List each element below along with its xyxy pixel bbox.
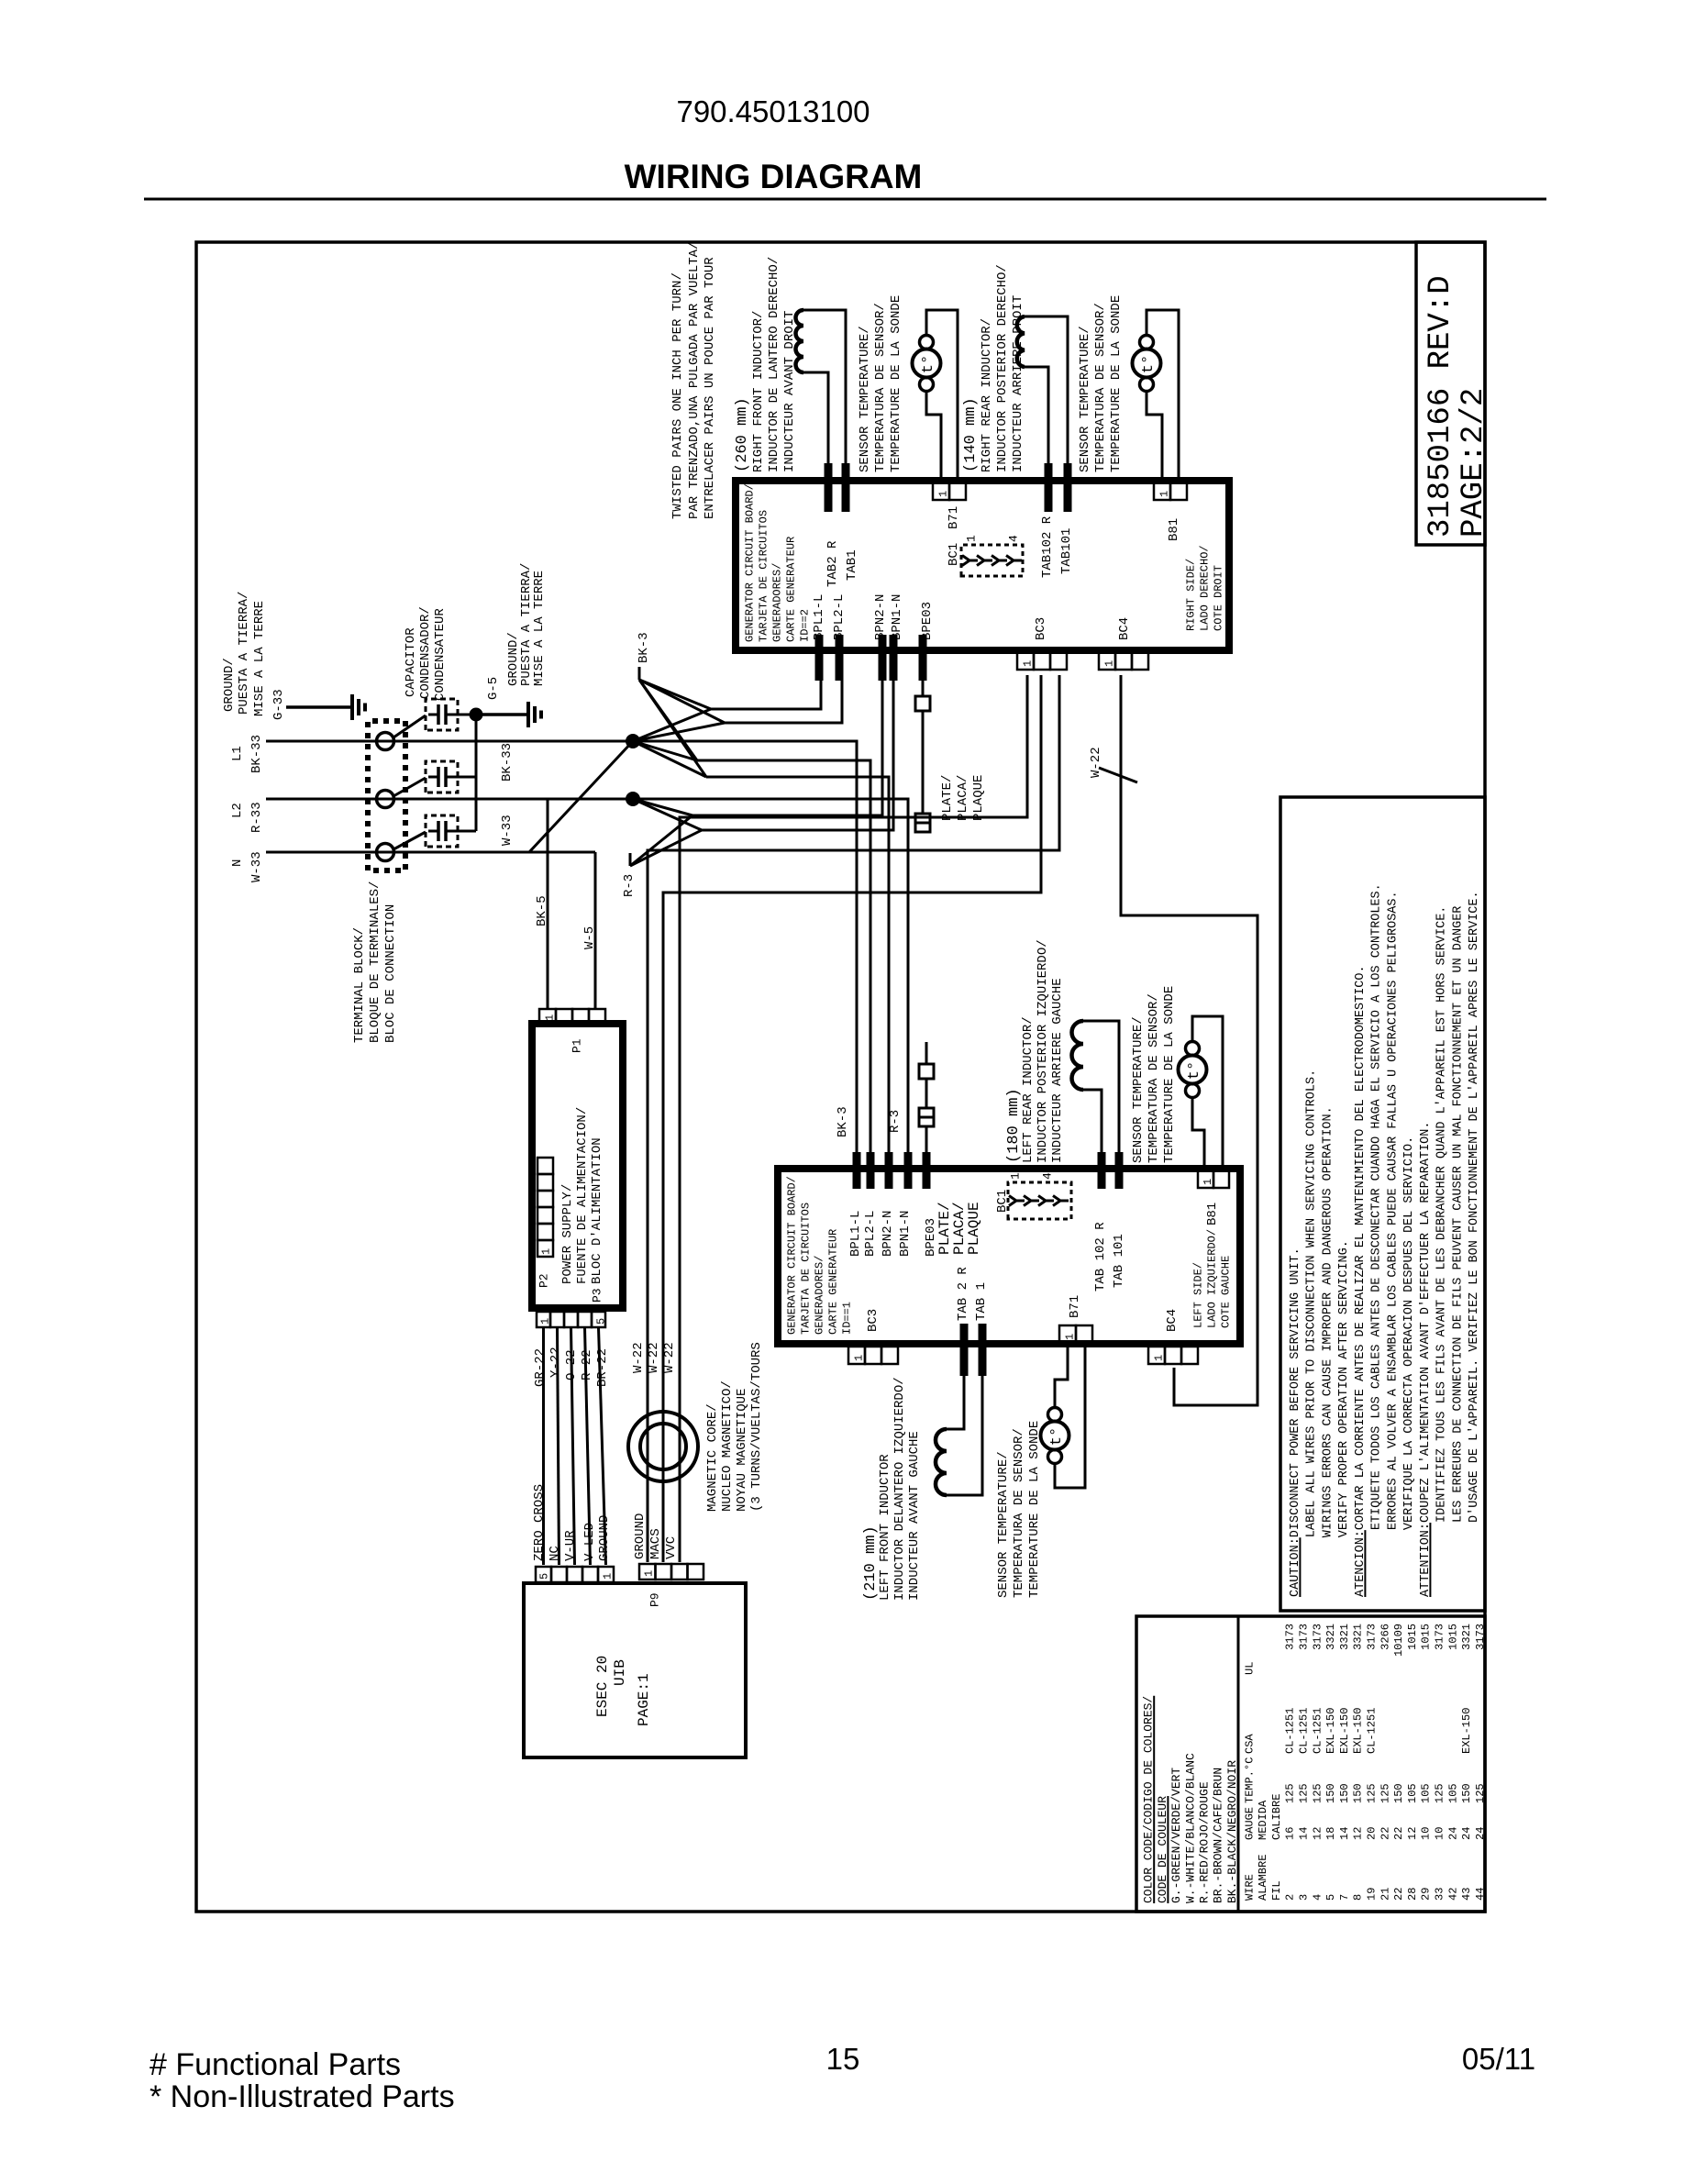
svg-text:FUENTE DE ALIMENTACION/: FUENTE DE ALIMENTACION/	[575, 1107, 590, 1284]
svg-text:G-33: G-33	[271, 689, 286, 720]
stub TAB102 R right	[1045, 463, 1053, 512]
svg-text:TARJETA DE CIRCUITOS: TARJETA DE CIRCUITOS	[799, 1203, 812, 1335]
svg-text:P3: P3	[591, 1288, 604, 1303]
svg-text:NUCLEO MAGNETICO/: NUCLEO MAGNETICO/	[720, 1380, 735, 1512]
wire sensor1 top to B71	[926, 310, 958, 481]
svg-text:1015: 1015	[1406, 1624, 1419, 1650]
wire coil4 to TAB 101	[1083, 1021, 1119, 1152]
svg-text:WIRING DIAGRAM: WIRING DIAGRAM	[625, 158, 923, 195]
svg-text:W-22: W-22	[1089, 747, 1103, 778]
svg-text:NC: NC	[548, 1546, 562, 1561]
svg-text:TAB1: TAB1	[845, 549, 859, 581]
capacitor C3	[426, 815, 458, 847]
svg-text:21: 21	[1379, 1888, 1391, 1901]
tick R-3	[629, 853, 632, 866]
svg-text:1: 1	[1158, 491, 1170, 497]
svg-text:TEMPERATURA DE SENSOR/: TEMPERATURA DE SENSOR/	[1093, 303, 1108, 472]
svg-text:B81: B81	[1167, 518, 1181, 541]
svg-text:1: 1	[543, 1014, 556, 1021]
terminal circle L1	[377, 733, 394, 750]
svg-text:1: 1	[1021, 660, 1034, 667]
svg-text:R-3: R-3	[622, 874, 637, 897]
svg-text:COTE GAUCHE: COTE GAUCHE	[1219, 1256, 1232, 1328]
svg-text:MACS: MACS	[648, 1528, 663, 1559]
wire R-3 node B to left BPN1-N	[633, 799, 908, 1152]
svg-text:BPL1-L: BPL1-L	[812, 594, 826, 640]
svg-text:1: 1	[1152, 1355, 1165, 1361]
svg-text:ERRORES AL VOLVER A ENSAMBLAR: ERRORES AL VOLVER A ENSAMBLAR LOS CABLES…	[1386, 891, 1400, 1530]
svg-text:INDUCTOR DELANTERO IZQUIERDO/: INDUCTOR DELANTERO IZQUIERDO/	[892, 1377, 907, 1601]
svg-text:3266: 3266	[1379, 1624, 1391, 1650]
svg-text:LEFT FRONT INDUCTOR: LEFT FRONT INDUCTOR	[878, 1454, 892, 1601]
svg-text:PAR TRENZADO,UNA PULGADA PAR V: PAR TRENZADO,UNA PULGADA PAR VUELTA/	[687, 242, 702, 519]
wire sensor4 top to B81 left	[1192, 1016, 1223, 1169]
svg-text:TAB 101: TAB 101	[1112, 1234, 1126, 1288]
svg-text:10109: 10109	[1392, 1624, 1405, 1657]
stub BPL2-L right	[836, 635, 844, 681]
svg-text:2: 2	[1284, 1894, 1297, 1901]
svg-text:24: 24	[1460, 1827, 1473, 1840]
connector B81 left	[1198, 1170, 1213, 1188]
svg-text:MISE A LA TERRE: MISE A LA TERRE	[252, 601, 267, 716]
svg-text:42: 42	[1446, 1888, 1459, 1901]
wire BC3R-2 to P9 MACS	[663, 675, 1041, 1562]
svg-text:28: 28	[1406, 1888, 1419, 1901]
svg-text:NOYAU MAGNETIQUE: NOYAU MAGNETIQUE	[735, 1389, 749, 1512]
svg-text:24: 24	[1446, 1827, 1459, 1840]
svg-text:UIB: UIB	[612, 1659, 628, 1686]
svg-text:P9: P9	[648, 1592, 662, 1607]
svg-text:PAGE:1: PAGE:1	[636, 1673, 652, 1726]
svg-text:VERIFY PROPER OPERATION AFTER: VERIFY PROPER OPERATION AFTER SERVICING.	[1337, 1240, 1351, 1537]
ESEC 20 UIB box	[524, 1583, 746, 1757]
svg-text:ALAMBRE: ALAMBRE	[1257, 1855, 1269, 1901]
svg-text:22: 22	[1392, 1827, 1405, 1840]
inductor left rear (180 mm)	[1072, 1021, 1084, 1090]
svg-text:3321: 3321	[1352, 1624, 1365, 1650]
svg-text:150: 150	[1338, 1783, 1351, 1803]
wire BC3R-3 to P9 GROUND	[648, 675, 1059, 1562]
svg-text:TARJETA DE CIRCUITOS: TARJETA DE CIRCUITOS	[757, 510, 770, 642]
svg-text:BK-33: BK-33	[249, 735, 264, 773]
svg-text:LEFT SIDE/: LEFT SIDE/	[1191, 1262, 1204, 1328]
svg-text:TAB 102 R: TAB 102 R	[1093, 1222, 1108, 1292]
svg-text:W-33: W-33	[500, 815, 515, 846]
svg-text:TEMPERATURA DE SENSOR/: TEMPERATURA DE SENSOR/	[1012, 1428, 1026, 1598]
svg-text:t°: t°	[1140, 355, 1158, 373]
svg-text:1: 1	[1202, 1179, 1214, 1185]
connector BC4 left	[1148, 1347, 1165, 1364]
svg-text:ZERO CROSS: ZERO CROSS	[532, 1484, 547, 1561]
capacitor C1	[426, 699, 458, 730]
svg-text:19: 19	[1366, 1888, 1379, 1901]
svg-text:125: 125	[1379, 1783, 1391, 1803]
junction node A (L1)	[626, 735, 640, 748]
svg-text:LADO IZQUIERDO/: LADO IZQUIERDO/	[1205, 1229, 1218, 1328]
svg-text:TEMPERATURA DE SENSOR/: TEMPERATURA DE SENSOR/	[873, 303, 888, 472]
svg-text:CONDENSADOR/: CONDENSADOR/	[418, 606, 433, 699]
wire sensor2 top to B81	[1147, 310, 1179, 481]
svg-text:20: 20	[1366, 1827, 1379, 1840]
svg-text:125: 125	[1311, 1783, 1324, 1803]
svg-text:12: 12	[1311, 1827, 1324, 1840]
wire W-5	[594, 852, 597, 1009]
svg-text:GR-22: GR-22	[533, 1348, 548, 1387]
wire coil3 to TAB 2 R	[947, 1376, 964, 1429]
svg-text:1015: 1015	[1420, 1624, 1433, 1650]
svg-text:GENERATOR CIRCUIT BOARD/: GENERATOR CIRCUIT BOARD/	[743, 483, 756, 642]
stub TAB101 right	[1064, 463, 1072, 512]
svg-text:7: 7	[1338, 1894, 1351, 1901]
capacitor C2	[426, 761, 458, 793]
svg-text:3321: 3321	[1460, 1624, 1473, 1650]
svg-text:1: 1	[539, 1248, 552, 1255]
svg-text:105: 105	[1446, 1783, 1459, 1803]
wire L2 R-33	[266, 798, 633, 801]
wire coil4 to TAB 102 R	[1083, 1090, 1102, 1152]
svg-text:ID==2: ID==2	[798, 609, 811, 642]
svg-text:PAGE:2/2: PAGE:2/2	[1457, 388, 1491, 538]
svg-text:3173: 3173	[1366, 1624, 1379, 1650]
svg-text:3173: 3173	[1474, 1624, 1487, 1650]
power supply box	[532, 1024, 623, 1308]
svg-text:1: 1	[936, 491, 949, 497]
wire L2 to C2	[393, 778, 426, 796]
svg-text:VVC: VVC	[664, 1536, 679, 1559]
svg-text:O-22: O-22	[564, 1349, 579, 1380]
svg-text:BPN2-N: BPN2-N	[873, 594, 888, 640]
svg-text:BC4: BC4	[1165, 1309, 1180, 1332]
svg-text:TAB 2 R: TAB 2 R	[956, 1267, 970, 1321]
svg-text:22: 22	[1392, 1888, 1405, 1901]
svg-text:BC1: BC1	[995, 1190, 1010, 1213]
svg-text:INDUCTEUR AVANT DROIT: INDUCTEUR AVANT DROIT	[782, 311, 797, 472]
svg-text:TERMINAL BLOCK/: TERMINAL BLOCK/	[352, 927, 367, 1043]
terminal circle L2	[377, 791, 394, 808]
wire coil2 to TAB101	[1025, 316, 1068, 463]
drawing frame border	[196, 242, 1485, 1912]
svg-text:t°: t°	[1048, 1427, 1066, 1446]
twisted pair fan diagonals	[639, 680, 711, 709]
connector P3	[537, 1312, 550, 1327]
svg-text:1: 1	[965, 535, 979, 542]
svg-text:EXL-150: EXL-150	[1352, 1708, 1365, 1754]
svg-text:R-33: R-33	[249, 802, 264, 833]
svg-text:TAB102 R: TAB102 R	[1040, 516, 1055, 578]
inductor right front (260 mm)	[796, 310, 804, 372]
sensor temperature right rear	[1133, 349, 1161, 378]
sensor temperature right front	[913, 349, 941, 378]
svg-text:150: 150	[1460, 1783, 1473, 1803]
stub TAB 102 R left	[1098, 1152, 1106, 1189]
svg-text:GROUND: GROUND	[597, 1515, 612, 1561]
svg-text:WIRINGS ERRORS CAN CAUSE IMPRO: WIRINGS ERRORS CAN CAUSE IMPROPER AND DA…	[1321, 1106, 1335, 1537]
svg-text:INDUCTEUR ARRIERE GAUCHE: INDUCTEUR ARRIERE GAUCHE	[1050, 978, 1065, 1163]
stub BPL1-L left	[853, 1152, 861, 1189]
svg-text:G.-GREEN/VERDE/VERT: G.-GREEN/VERDE/VERT	[1169, 1768, 1183, 1903]
svg-text:150: 150	[1392, 1783, 1405, 1803]
svg-text:5: 5	[1324, 1894, 1337, 1901]
svg-text:BPN1-N: BPN1-N	[890, 594, 904, 640]
svg-text:CARTE GENERATEUR: CARTE GENERATEUR	[826, 1229, 839, 1335]
wire coil1 to TAB1	[803, 310, 846, 463]
svg-text:BC1: BC1	[947, 543, 961, 566]
svg-text:MEDIDA: MEDIDA	[1257, 1800, 1269, 1840]
svg-text:G-5: G-5	[486, 677, 501, 700]
svg-text:3321: 3321	[1324, 1624, 1337, 1650]
svg-text:3: 3	[1298, 1894, 1311, 1901]
svg-text:W-22: W-22	[647, 1342, 661, 1373]
svg-text:CARTE GENERATEUR: CARTE GENERATEUR	[784, 537, 797, 642]
svg-text:POWER SUPPLY/: POWER SUPPLY/	[560, 1184, 575, 1284]
svg-text:1015: 1015	[1446, 1624, 1459, 1650]
stub TAB 101 left	[1115, 1152, 1124, 1189]
svg-text:43: 43	[1460, 1888, 1473, 1901]
svg-text:BPE03: BPE03	[920, 602, 935, 640]
svg-text:10: 10	[1434, 1827, 1446, 1840]
svg-text:# Functional Parts: # Functional Parts	[150, 2047, 401, 2082]
svg-text:INDUCTOR POSTERIOR IZQUIERDO/: INDUCTOR POSTERIOR IZQUIERDO/	[1036, 939, 1050, 1163]
svg-text:12: 12	[1352, 1827, 1365, 1840]
connector BC3 left	[848, 1347, 865, 1364]
generator circuit board right ID==2	[736, 481, 1229, 650]
plate left (BPE03)	[925, 1126, 928, 1152]
svg-text:10: 10	[1420, 1827, 1433, 1840]
svg-text:105: 105	[1420, 1783, 1433, 1803]
stub BPE03 left	[923, 1152, 931, 1189]
svg-text:PLACA/: PLACA/	[956, 775, 970, 821]
svg-text:W.-WHITE/BLANCO/BLANC: W.-WHITE/BLANCO/BLANC	[1183, 1753, 1197, 1903]
svg-text:(3 TURNS/VUELTAS/TOURS: (3 TURNS/VUELTAS/TOURS	[749, 1342, 764, 1512]
svg-text:1: 1	[1102, 660, 1115, 667]
svg-text:BC3: BC3	[1034, 617, 1048, 640]
svg-text:BR.-BROWN/CAFE/BRUN: BR.-BROWN/CAFE/BRUN	[1212, 1768, 1225, 1903]
svg-text:22: 22	[1379, 1827, 1391, 1840]
svg-text:W-22: W-22	[662, 1342, 677, 1373]
connector BC1 right (dashed)	[961, 545, 1023, 576]
svg-text:1: 1	[642, 1570, 655, 1577]
svg-text:05/11: 05/11	[1462, 2042, 1535, 2076]
svg-text:GENERADORES/: GENERADORES/	[770, 563, 783, 642]
wire sensor3 top to B71 left	[1055, 1343, 1068, 1407]
svg-text:TEMPERATURE DE LA SONDE: TEMPERATURE DE LA SONDE	[1109, 295, 1124, 472]
svg-text:18: 18	[1324, 1827, 1337, 1840]
wire BPL1-L right	[711, 681, 821, 709]
svg-text:ATENCION:CORTAR LA CORRIENTE A: ATENCION:CORTAR LA CORRIENTE ANTES DE RE…	[1354, 965, 1368, 1597]
svg-text:WIRE: WIRE	[1243, 1874, 1256, 1901]
stub BPN1-N left	[904, 1152, 913, 1189]
title block box	[1416, 242, 1485, 545]
wire sensor2 bottom to B81	[1147, 392, 1162, 481]
svg-text:3173: 3173	[1284, 1624, 1297, 1650]
svg-text:D'USAGE DE L'APPAREIL. VERIFIE: D'USAGE DE L'APPAREIL. VERIFIEZ LE BON F…	[1468, 891, 1481, 1523]
svg-text:GENERATOR CIRCUIT BOARD/: GENERATOR CIRCUIT BOARD/	[785, 1176, 798, 1335]
svg-text:B81: B81	[1205, 1203, 1220, 1225]
svg-text:TEMPERATURE DE LA SONDE: TEMPERATURE DE LA SONDE	[1162, 986, 1177, 1163]
svg-text:V-UR: V-UR	[563, 1530, 578, 1561]
wire to left BPL2-L	[697, 760, 870, 1152]
svg-text:P2: P2	[537, 1273, 551, 1288]
connector B71 right	[933, 482, 949, 500]
stub BPN2-N left	[885, 1152, 893, 1189]
svg-text:LEFT REAR INDUCTOR/: LEFT REAR INDUCTOR/	[1021, 1016, 1036, 1163]
svg-text:ENTRELACER PAIRS UN POUCE PAR: ENTRELACER PAIRS UN POUCE PAR TOUR	[703, 257, 717, 519]
connector P2	[537, 1158, 553, 1174]
junction node B (L2)	[626, 793, 640, 806]
svg-text:125: 125	[1474, 1783, 1487, 1803]
inductor right rear (140 mm)	[1017, 316, 1025, 367]
svg-text:EXL-150: EXL-150	[1324, 1708, 1337, 1754]
svg-text:BPN1-N: BPN1-N	[898, 1211, 913, 1257]
svg-text:GENERADORES/: GENERADORES/	[813, 1256, 825, 1335]
stub TAB2 R right	[825, 463, 833, 512]
svg-text:LABEL ALL WIRES PRIOR TO DISCO: LABEL ALL WIRES PRIOR TO DISCONNECTION W…	[1305, 1070, 1319, 1537]
svg-text:SENSOR TEMPERATURE/: SENSOR TEMPERATURE/	[858, 326, 872, 472]
svg-text:BLOQUE DE TERMINALES/: BLOQUE DE TERMINALES/	[368, 881, 382, 1043]
ground symbol G-33	[286, 705, 352, 709]
svg-text:PLAQUE: PLAQUE	[971, 775, 986, 821]
svg-text:TWISTED PAIRS ONE INCH PER TUR: TWISTED PAIRS ONE INCH PER TURN/	[670, 272, 685, 519]
svg-text:BLOC DE CONNECTION: BLOC DE CONNECTION	[383, 904, 398, 1043]
svg-text:1: 1	[601, 1573, 614, 1580]
wire sensor4 bottom to B81 left	[1192, 1099, 1204, 1169]
wire BC3R-1 to P9 VVC	[680, 675, 1027, 1562]
svg-text:EXL-150: EXL-150	[1460, 1708, 1473, 1754]
svg-text:GROUND: GROUND	[633, 1513, 648, 1559]
svg-text:3173: 3173	[1434, 1624, 1446, 1650]
svg-text:INDUCTEUR AVANT GAUCHE: INDUCTEUR AVANT GAUCHE	[907, 1431, 922, 1601]
svg-text:PLAQUE: PLAQUE	[966, 1202, 982, 1255]
connector P4	[536, 1567, 551, 1582]
svg-text:W-33: W-33	[249, 851, 264, 882]
svg-text:SENSOR TEMPERATURE/: SENSOR TEMPERATURE/	[1078, 326, 1092, 472]
wire to left BPN2-N	[706, 777, 889, 1152]
inductor left front (210 mm)	[936, 1429, 947, 1495]
svg-text:GROUND/: GROUND/	[222, 658, 237, 712]
svg-text:1: 1	[1009, 1172, 1023, 1180]
stub TAB1 right	[842, 463, 850, 512]
svg-text:TEMPERATURE DE LA SONDE: TEMPERATURE DE LA SONDE	[1027, 1421, 1042, 1598]
stub TAB 1 left	[979, 1324, 987, 1376]
svg-text:BK-3: BK-3	[836, 1106, 850, 1137]
svg-text:16: 16	[1284, 1827, 1297, 1840]
svg-text:CAPACITOR: CAPACITOR	[404, 627, 418, 697]
tick W-22	[1099, 768, 1137, 782]
svg-text:4: 4	[1041, 1172, 1055, 1180]
stub TAB 2 R left	[960, 1324, 969, 1376]
svg-text:29: 29	[1420, 1888, 1433, 1901]
svg-text:TAB 1: TAB 1	[974, 1282, 989, 1321]
svg-text:1: 1	[852, 1355, 865, 1361]
svg-text:MISE A LA TERRE: MISE A LA TERRE	[532, 571, 547, 686]
svg-text:TEMPERATURA DE SENSOR/: TEMPERATURA DE SENSOR/	[1147, 993, 1161, 1163]
sensor temperature left rear	[1179, 1056, 1207, 1084]
svg-text:L1: L1	[230, 746, 245, 761]
svg-text:FIL: FIL	[1270, 1880, 1283, 1901]
svg-text:12: 12	[1406, 1827, 1419, 1840]
svg-text:t°: t°	[920, 355, 937, 373]
wire sensor3 bottom to B71 left	[1055, 1343, 1085, 1488]
diagonal node A to N wire	[529, 741, 633, 852]
caution text box	[1280, 797, 1485, 1611]
svg-text:RIGHT REAR INDUCTOR/: RIGHT REAR INDUCTOR/	[980, 318, 994, 472]
svg-text:4: 4	[1007, 535, 1021, 542]
svg-text:INDUCTEUR ARRIERE DROIT: INDUCTEUR ARRIERE DROIT	[1011, 295, 1025, 472]
plate right (BPE03)	[922, 681, 925, 696]
svg-text:150: 150	[1352, 1783, 1365, 1803]
connector BC3 right	[1017, 652, 1034, 670]
svg-text:PLATE/: PLATE/	[940, 775, 955, 821]
svg-text:SENSOR TEMPERATURE/: SENSOR TEMPERATURE/	[996, 1451, 1011, 1598]
svg-text:t°: t°	[1186, 1061, 1203, 1080]
svg-text:R.-RED/ROJO/ROUGE: R.-RED/ROJO/ROUGE	[1198, 1781, 1212, 1903]
connector B71 left	[1059, 1325, 1076, 1343]
stub BPL2-L left	[867, 1152, 875, 1189]
svg-text:4: 4	[1311, 1894, 1324, 1901]
svg-text:CONDENSATEUR: CONDENSATEUR	[433, 608, 448, 701]
svg-text:LADO DERECHO/: LADO DERECHO/	[1198, 545, 1211, 631]
svg-text:(140 mm): (140 mm)	[962, 397, 980, 472]
ground symbol G-5	[482, 713, 528, 716]
svg-text:COTE DROIT: COTE DROIT	[1212, 565, 1224, 631]
wire sensor1 bottom to B71	[926, 392, 941, 481]
wire N W-33	[266, 851, 595, 854]
svg-text:B71: B71	[1068, 1295, 1082, 1318]
wires P3 to P4	[542, 1327, 545, 1565]
svg-text:* Non-Illustrated Parts: * Non-Illustrated Parts	[150, 2079, 455, 2114]
svg-text:8: 8	[1352, 1894, 1365, 1901]
terminal circle N	[377, 844, 394, 861]
svg-text:125: 125	[1366, 1783, 1379, 1803]
svg-text:ID==1: ID==1	[840, 1302, 853, 1335]
svg-text:3173: 3173	[1298, 1624, 1311, 1650]
svg-text:GAUGE: GAUGE	[1243, 1807, 1256, 1840]
svg-text:125: 125	[1434, 1783, 1446, 1803]
svg-text:CL-1251: CL-1251	[1298, 1708, 1311, 1754]
svg-text:BK-3: BK-3	[637, 632, 651, 663]
header rule	[144, 198, 1546, 201]
svg-text:44: 44	[1474, 1888, 1487, 1901]
svg-text:24: 24	[1474, 1827, 1487, 1840]
svg-text:CALIBRE: CALIBRE	[1270, 1794, 1283, 1840]
terminal block TB1 dotted outline	[368, 721, 405, 870]
svg-text:L2: L2	[230, 803, 245, 818]
svg-text:INDUCTOR DE LANTERO DERECHO/: INDUCTOR DE LANTERO DERECHO/	[767, 257, 781, 472]
wire color code table box	[1136, 1616, 1485, 1912]
wire BPN2-N right	[692, 681, 882, 815]
svg-text:1: 1	[538, 1318, 551, 1325]
svg-text:14: 14	[1338, 1827, 1351, 1840]
svg-text:15: 15	[826, 2042, 860, 2076]
svg-text:3173: 3173	[1311, 1624, 1324, 1650]
svg-text:CL-1251: CL-1251	[1311, 1708, 1324, 1754]
sensor temperature left front	[1041, 1422, 1069, 1450]
svg-text:Y-22: Y-22	[548, 1347, 563, 1378]
wire W-22 BC4R to BC4L	[1121, 675, 1257, 1405]
svg-text:ETIQUETE TODOS LOS CABLES ANTE: ETIQUETE TODOS LOS CABLES ANTES DE DESCO…	[1370, 883, 1384, 1530]
svg-text:R-3: R-3	[888, 1110, 903, 1133]
stub BPE03 right	[919, 635, 927, 681]
connector P9	[639, 1564, 656, 1580]
svg-text:BLOC D'ALIMENTATION: BLOC D'ALIMENTATION	[590, 1137, 604, 1284]
wire BPL2-L right	[725, 681, 842, 723]
svg-text:CL-1251: CL-1251	[1284, 1708, 1297, 1754]
svg-text:1: 1	[1063, 1334, 1076, 1340]
stub BPL1-L right	[815, 635, 824, 681]
stub BPN1-N right	[890, 635, 898, 681]
wire BK-3 node A to left BPL1-L	[633, 741, 857, 1152]
wire N to C3	[393, 832, 426, 849]
